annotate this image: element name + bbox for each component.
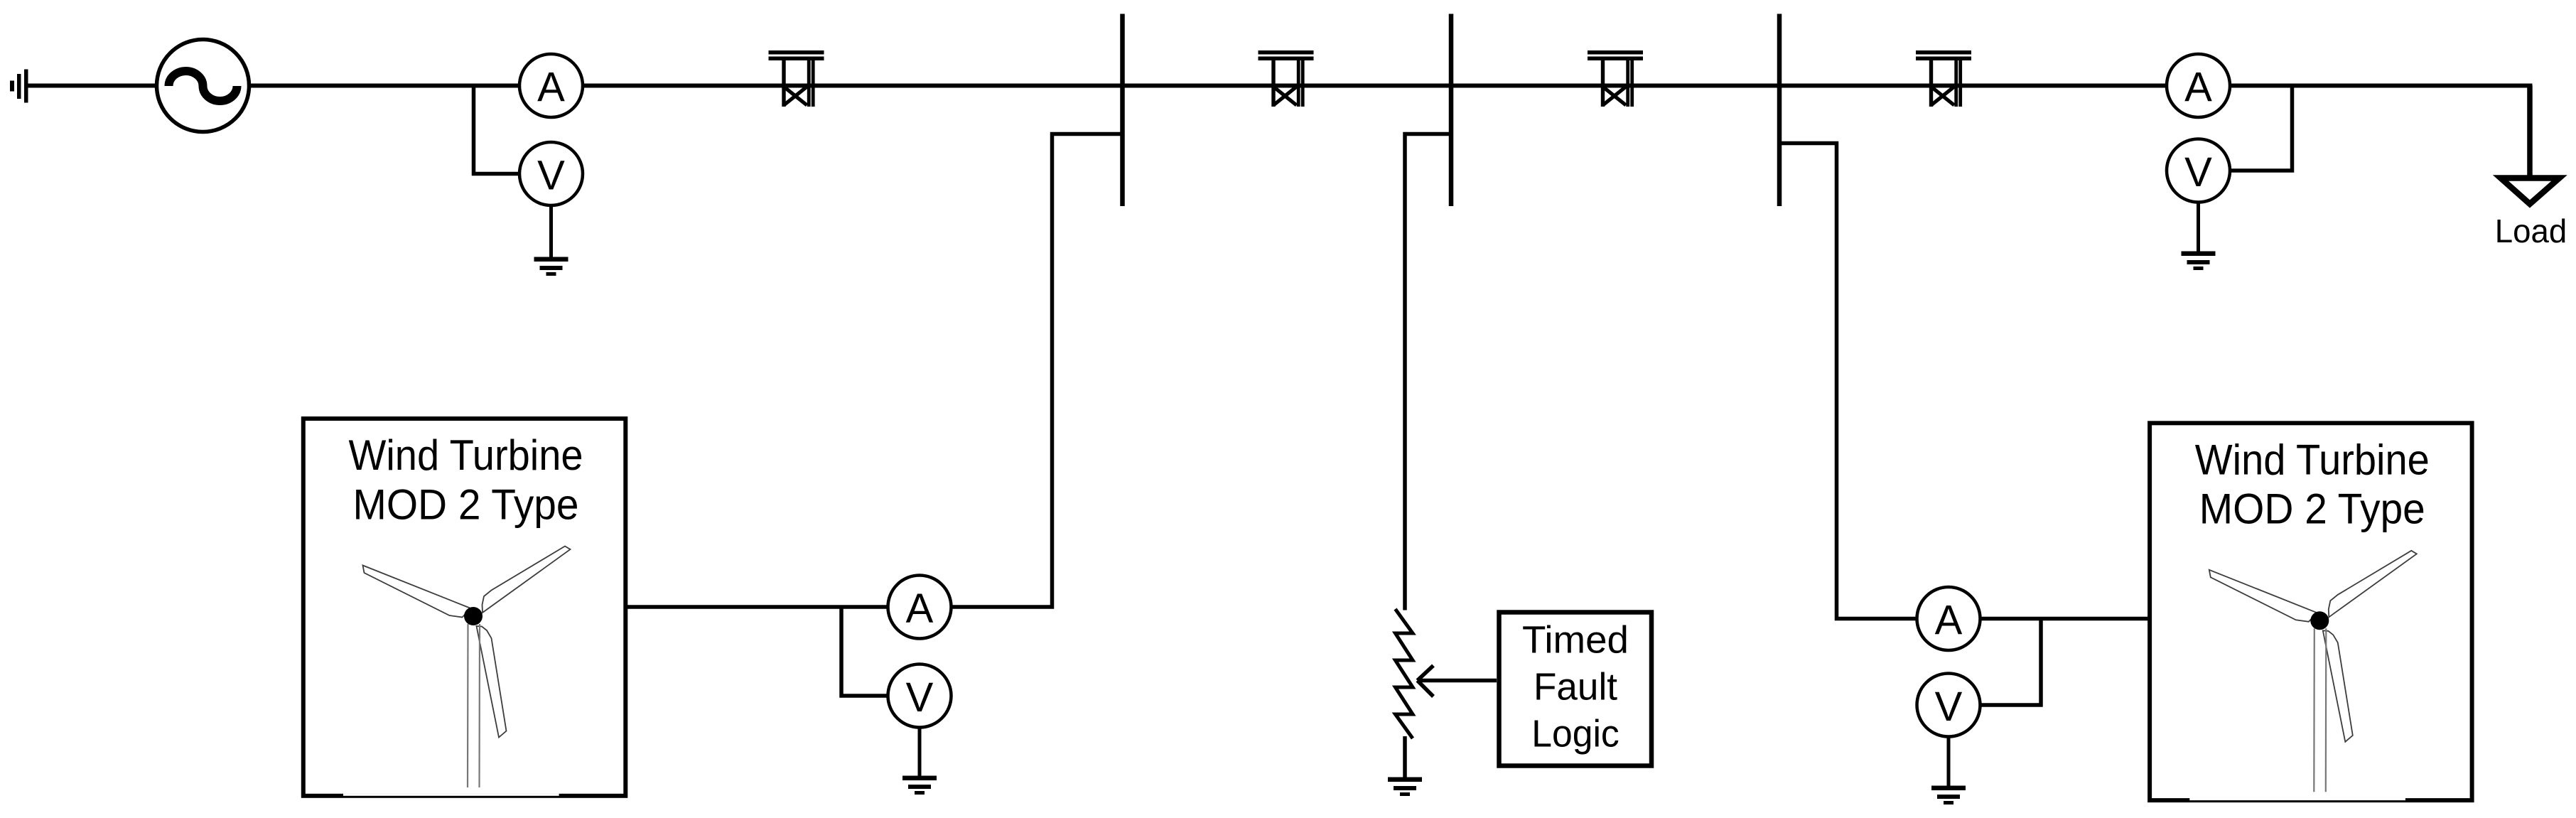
svg-text:Wind Turbine: Wind Turbine	[2195, 436, 2430, 483]
svg-text:Logic: Logic	[1531, 713, 1620, 755]
svg-text:MOD 2 Type: MOD 2 Type	[353, 480, 579, 528]
svg-text:Timed: Timed	[1522, 619, 1629, 662]
svg-text:Fault: Fault	[1534, 666, 1617, 709]
svg-text:MOD 2 Type: MOD 2 Type	[2199, 485, 2425, 533]
svg-text:Wind Turbine: Wind Turbine	[349, 431, 583, 479]
svg-text:Load: Load	[2495, 212, 2567, 249]
